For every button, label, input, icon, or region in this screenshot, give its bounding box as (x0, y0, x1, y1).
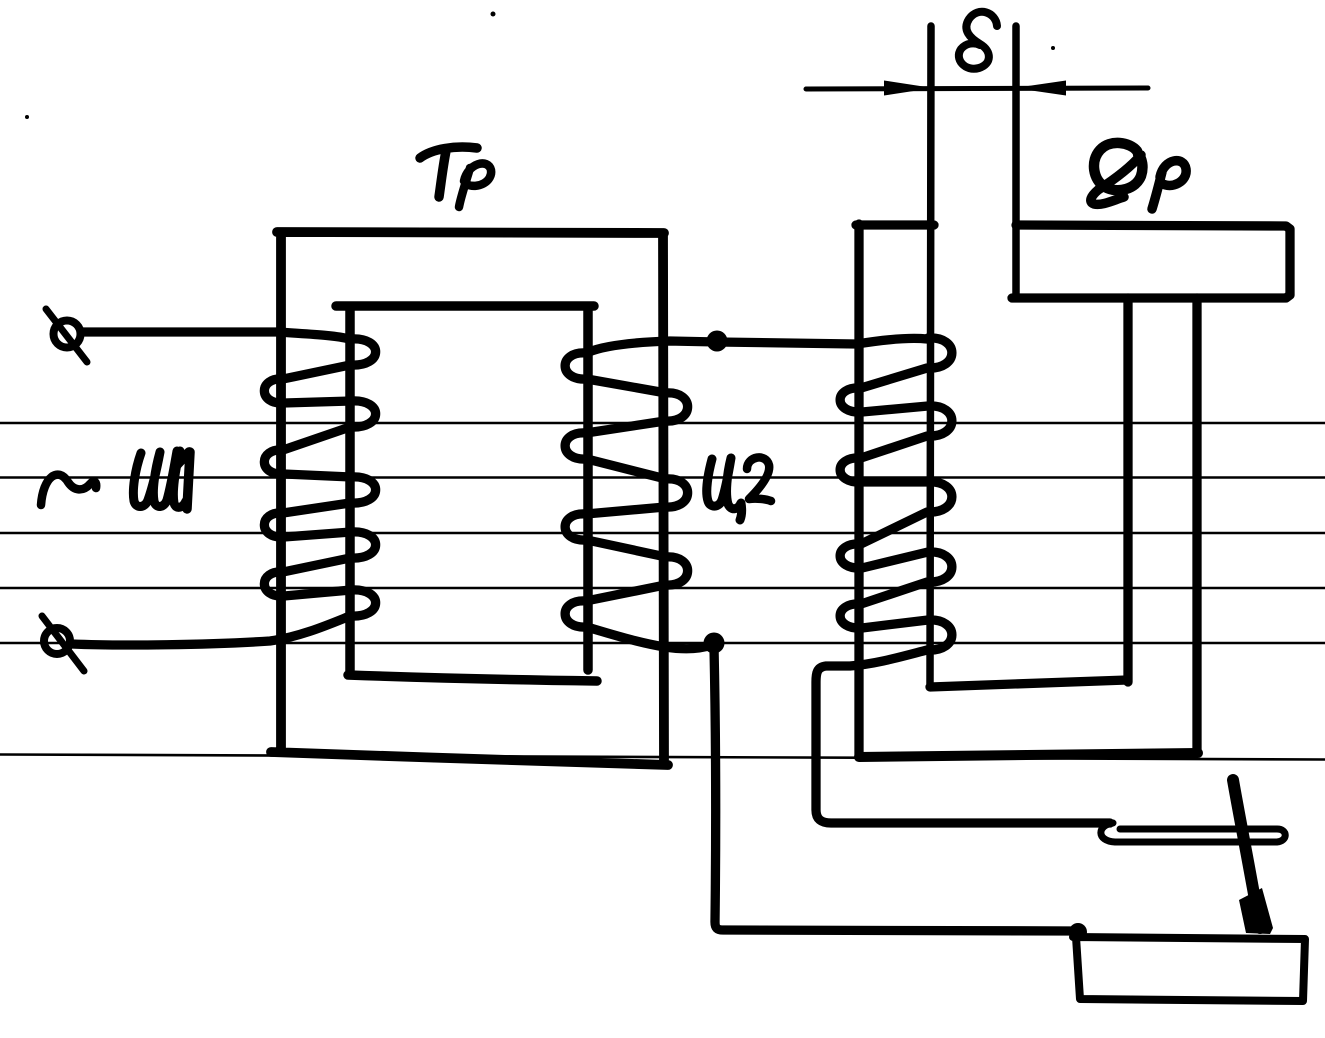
secondary winding W2 of transformer Tr and top wire to choke (565, 341, 856, 649)
choke Dr core: left limb (856, 224, 934, 757)
electrode holder (1101, 823, 1285, 842)
junction node at workpiece (1069, 923, 1087, 941)
terminal X2 (bottom input) (44, 628, 70, 654)
choke Dr core: outer bottom bar (859, 753, 1198, 757)
choke Dr core: top bar (1012, 225, 1290, 298)
air gap dimension line (806, 88, 1148, 89)
label: air gap delta (959, 12, 997, 69)
electrode (1233, 780, 1260, 928)
transformer Tr core inner rectangle (window) (336, 306, 597, 681)
label: Tr (transformer) (420, 147, 477, 197)
terminal X1 (top input) (54, 321, 81, 348)
transformer Tr core outer rectangle (271, 232, 668, 765)
choke Dr core: inner bottom bar (930, 680, 1127, 687)
choke Dr core: outer right limb (1192, 298, 1201, 753)
label: W2 (secondary designation) (707, 458, 742, 520)
choke Dr winding and wire to electrode holder (816, 338, 1110, 823)
primary winding W1 of transformer Tr with input wire (72, 332, 376, 645)
dimension arrowhead right (1014, 81, 1066, 96)
choke Dr core: inner right limb (1123, 298, 1132, 682)
workpiece (welded part) (1073, 937, 1305, 1001)
label: AC symbol ~ (41, 475, 96, 505)
wire: secondary bottom to workpiece (714, 647, 1075, 931)
junction node: secondary bottom output (704, 633, 725, 654)
junction node: secondary top output (707, 331, 728, 352)
dimension arrowhead left (884, 81, 933, 96)
label: Dr (choke) (1094, 143, 1142, 190)
choke Dr core: air-gap edge verticals (930, 26, 1016, 684)
label: W1 (primary designation) (133, 451, 186, 507)
scan specks (25, 115, 29, 119)
